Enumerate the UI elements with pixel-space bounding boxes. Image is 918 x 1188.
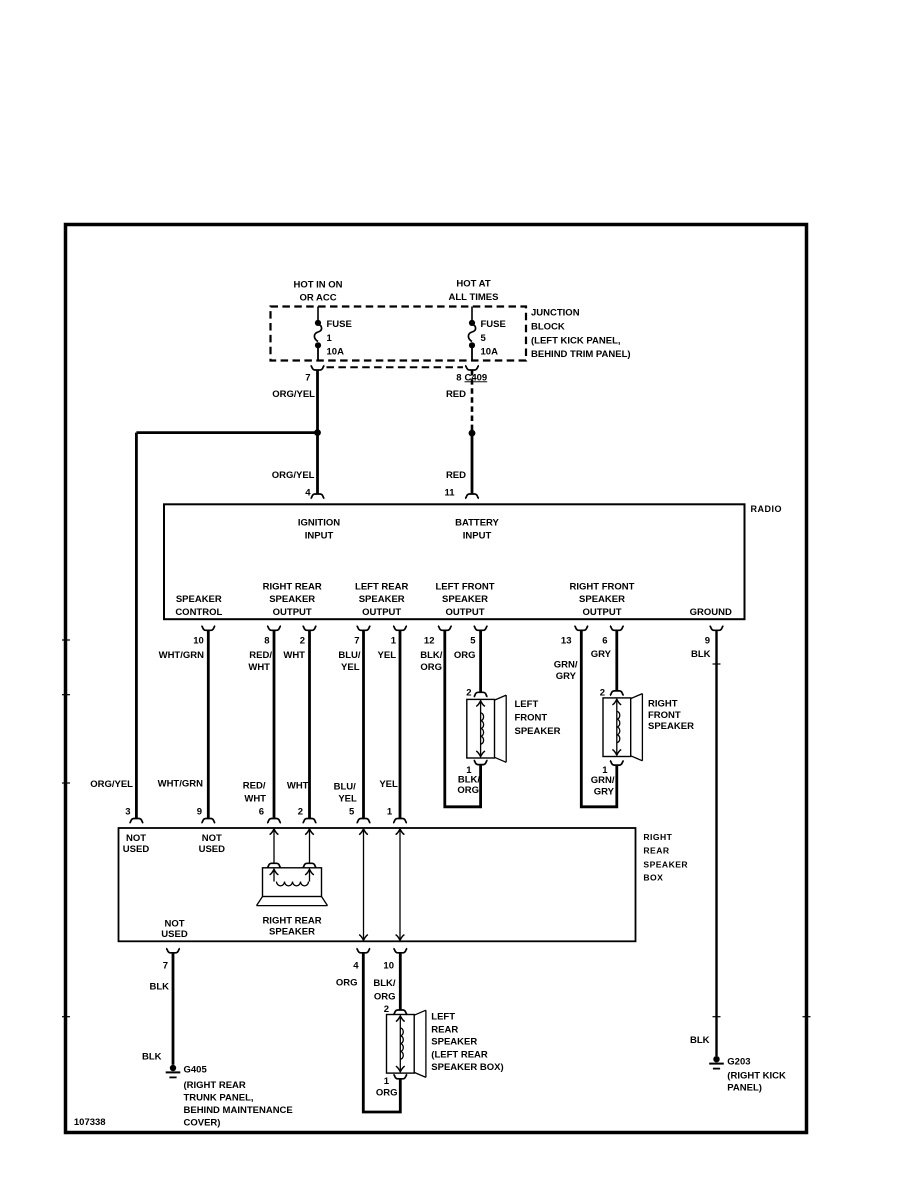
svg-text:YEL: YEL [378, 650, 397, 661]
svg-text:BLK: BLK [142, 1052, 162, 1063]
svg-text:IGNITION: IGNITION [298, 518, 340, 529]
svg-text:SPEAKER: SPEAKER [431, 1037, 477, 1048]
svg-text:USED: USED [123, 844, 150, 855]
svg-text:8: 8 [456, 372, 461, 383]
svg-text:2: 2 [466, 688, 471, 699]
svg-text:RIGHT FRONT: RIGHT FRONT [570, 582, 635, 593]
svg-text:GRY: GRY [594, 787, 615, 798]
svg-text:GRY: GRY [591, 649, 612, 660]
svg-text:CONTROL: CONTROL [175, 607, 222, 618]
wire ORG pin5 to LF speaker pin 2 [454, 630, 488, 698]
wire ORG/YEL lower label + pin 4 into radio [272, 470, 325, 499]
box label NOT USED (pin 7) [161, 918, 188, 940]
radio pin 1 connector [391, 626, 407, 647]
svg-text:(RIGHT KICK: (RIGHT KICK [727, 1071, 786, 1082]
svg-text:PANEL): PANEL) [727, 1083, 762, 1094]
svg-text:SPEAKER: SPEAKER [515, 726, 561, 737]
svg-text:BLK/: BLK/ [420, 650, 443, 661]
right front speaker [603, 694, 642, 761]
svg-text:BLOCK: BLOCK [531, 322, 565, 333]
svg-text:BLU/: BLU/ [334, 782, 357, 793]
svg-text:RED: RED [446, 470, 466, 481]
scan tick marks [62, 640, 811, 1017]
radio pin 7 connector [354, 626, 370, 647]
svg-text:FRONT: FRONT [648, 710, 681, 721]
in-box wire WHT to RR speaker pin B [303, 829, 317, 868]
connector C409 pin 7 [305, 366, 324, 384]
svg-text:BEHIND MAINTENANCE: BEHIND MAINTENANCE [184, 1105, 293, 1116]
junction block (dashed box) [271, 307, 527, 361]
svg-text:ORG: ORG [420, 662, 442, 673]
wire ORG/YEL from fuse 1 to junction dot [272, 370, 317, 494]
svg-text:GRN/: GRN/ [554, 660, 578, 671]
svg-text:WHT: WHT [283, 650, 305, 661]
svg-text:SPEAKER: SPEAKER [359, 594, 405, 605]
svg-text:10: 10 [383, 960, 394, 971]
wire GRY pin6 to RF speaker pin 2 [591, 630, 624, 698]
in-box wire RED/WHT to RR speaker pin A [267, 829, 281, 868]
svg-text:10A: 10A [481, 347, 499, 358]
svg-text:SPEAKER: SPEAKER [643, 859, 688, 869]
right rear speaker label [262, 916, 321, 938]
svg-text:5: 5 [470, 636, 476, 647]
right front speaker label [648, 698, 694, 732]
svg-text:5: 5 [349, 807, 355, 818]
svg-text:WHT: WHT [248, 662, 270, 673]
svg-text:RIGHT REAR: RIGHT REAR [263, 582, 322, 593]
wire WHT/GRN pin10 to box pin 9 [158, 630, 216, 823]
svg-text:LEFT FRONT: LEFT FRONT [435, 582, 494, 593]
wire YEL pin1 to box pin 1 [378, 630, 407, 823]
box pin 10 connector [383, 948, 407, 971]
svg-text:RADIO: RADIO [751, 504, 783, 514]
radio U1 box [164, 504, 745, 619]
svg-text:7: 7 [163, 961, 168, 972]
svg-text:RED: RED [446, 389, 466, 400]
svg-text:G203: G203 [727, 1057, 750, 1068]
junction node dot on RED [469, 430, 476, 437]
right rear speaker [257, 868, 328, 906]
radio pin 8 connector [264, 626, 281, 647]
svg-text:OUTPUT: OUTPUT [445, 607, 484, 618]
svg-text:OUTPUT: OUTPUT [273, 607, 312, 618]
svg-text:COVER): COVER) [184, 1118, 221, 1129]
svg-text:11: 11 [444, 488, 455, 499]
svg-text:HOT IN ON: HOT IN ON [293, 280, 342, 291]
radio pin 5 connector [470, 626, 487, 647]
svg-text:ORG: ORG [336, 978, 358, 989]
radio pin label RIGHT REAR SPEAKER OUTPUT [263, 582, 322, 619]
svg-text:2: 2 [300, 636, 305, 647]
radio pin label LEFT FRONT SPEAKER OUTPUT [435, 582, 494, 619]
svg-text:JUNCTION: JUNCTION [531, 308, 580, 319]
svg-text:5: 5 [481, 333, 487, 344]
svg-text:2: 2 [600, 688, 605, 699]
svg-text:SPEAKER: SPEAKER [176, 594, 222, 605]
svg-text:REAR: REAR [431, 1025, 458, 1036]
svg-text:FUSE: FUSE [327, 319, 352, 330]
svg-text:4: 4 [305, 488, 311, 499]
svg-text:12: 12 [424, 636, 435, 647]
svg-text:1: 1 [384, 1076, 390, 1087]
left front speaker [467, 695, 506, 762]
svg-text:ORG: ORG [374, 991, 396, 1002]
box pin 7 connector [163, 948, 180, 971]
svg-text:SPEAKER: SPEAKER [269, 927, 315, 938]
radio pin label SPEAKER CONTROL [175, 594, 222, 618]
svg-text:USED: USED [199, 844, 226, 855]
wire RED dashed from C409 to junction dot [446, 370, 472, 430]
wire BLK to G405 [142, 953, 173, 1065]
ground G203 [709, 1056, 786, 1094]
svg-text:WHT/GRN: WHT/GRN [158, 779, 204, 790]
left rear speaker [387, 1010, 426, 1077]
svg-text:BATTERY: BATTERY [455, 518, 499, 529]
svg-text:ORG: ORG [454, 650, 476, 661]
wire BLK pin9 to G203 [690, 630, 717, 1056]
svg-text:SPEAKER: SPEAKER [269, 594, 315, 605]
svg-text:WHT: WHT [244, 793, 266, 804]
svg-text:RIGHT: RIGHT [648, 698, 678, 709]
svg-text:2: 2 [298, 807, 303, 818]
svg-text:RIGHT REAR: RIGHT REAR [262, 916, 321, 927]
wire BLU/YEL pin7 to box pin 5 [334, 630, 371, 823]
svg-text:BLK/: BLK/ [373, 978, 396, 989]
svg-text:4: 4 [353, 960, 359, 971]
svg-text:SPEAKER BOX): SPEAKER BOX) [431, 1062, 503, 1073]
radio pin 6 connector [602, 626, 623, 647]
wire WHT pin2 to box pin 2 [283, 630, 316, 823]
svg-text:107338: 107338 [74, 1117, 106, 1128]
in-box wire YEL passthrough [396, 829, 405, 940]
radio pin 13 connector [561, 626, 588, 647]
svg-text:ORG: ORG [457, 785, 479, 796]
svg-text:HOT AT: HOT AT [456, 279, 490, 290]
svg-text:FRONT: FRONT [515, 713, 548, 724]
junction node dot on ORG/YEL [314, 429, 321, 436]
svg-text:LEFT REAR: LEFT REAR [355, 582, 408, 593]
svg-text:BLK: BLK [691, 649, 711, 660]
ground G405 [166, 1065, 293, 1129]
svg-text:7: 7 [305, 372, 310, 383]
radio pin label LEFT REAR SPEAKER OUTPUT [355, 582, 408, 619]
svg-text:13: 13 [561, 636, 572, 647]
wire BLK/ORG to LR speaker pin 2 [373, 953, 407, 1015]
wire BLK/ORG pin12 to LF speaker pin 1 [420, 630, 487, 807]
box label NOT USED (pin 3) [123, 833, 150, 855]
svg-text:WHT: WHT [287, 781, 309, 792]
box label NOT USED (pin 9) [199, 833, 226, 855]
diagram border frame [66, 225, 807, 1133]
svg-text:REAR: REAR [643, 846, 669, 856]
radio pin 9 connector [705, 626, 724, 647]
svg-text:ORG/YEL: ORG/YEL [272, 389, 315, 400]
junction block label [531, 308, 631, 361]
svg-text:RED/: RED/ [249, 650, 272, 661]
svg-text:10A: 10A [327, 347, 345, 358]
svg-text:9: 9 [705, 636, 710, 647]
svg-text:BLK: BLK [690, 1035, 710, 1046]
svg-text:C409: C409 [465, 372, 488, 383]
svg-text:2: 2 [384, 1004, 389, 1015]
svg-text:SPEAKER: SPEAKER [442, 594, 488, 605]
box pin 4 connector [353, 948, 370, 971]
svg-text:INPUT: INPUT [305, 531, 334, 542]
svg-text:RIGHT: RIGHT [643, 832, 672, 842]
node HOT IN ON OR ACC [293, 280, 342, 304]
svg-text:6: 6 [602, 636, 607, 647]
svg-text:(LEFT REAR: (LEFT REAR [431, 1050, 488, 1061]
radio pin 2 connector [300, 626, 317, 647]
radio pin 12 connector [424, 626, 452, 647]
svg-text:NOT: NOT [164, 918, 184, 929]
svg-text:ALL TIMES: ALL TIMES [449, 292, 499, 303]
svg-text:OUTPUT: OUTPUT [362, 607, 401, 618]
svg-text:OUTPUT: OUTPUT [582, 607, 621, 618]
svg-text:YEL: YEL [379, 779, 398, 790]
svg-text:FUSE: FUSE [481, 319, 506, 330]
wire ORG/YEL branch horizontal [136, 431, 317, 434]
radio pin label BATTERY INPUT [455, 518, 499, 542]
svg-text:GRN/: GRN/ [591, 775, 615, 786]
svg-text:WHT/GRN: WHT/GRN [159, 650, 205, 661]
svg-text:BLK: BLK [149, 982, 169, 993]
svg-text:GRY: GRY [556, 671, 577, 682]
left front speaker label [515, 699, 561, 737]
svg-text:ORG/YEL: ORG/YEL [272, 470, 315, 481]
svg-text:7: 7 [354, 636, 359, 647]
svg-text:BLU/: BLU/ [338, 650, 361, 661]
svg-text:(RIGHT REAR: (RIGHT REAR [184, 1080, 246, 1091]
svg-text:OR ACC: OR ACC [299, 293, 336, 304]
svg-text:NOT: NOT [202, 833, 222, 844]
node HOT AT ALL TIMES [449, 279, 499, 304]
wire ORG/YEL left drop to speaker box pin 3 [90, 433, 143, 823]
svg-text:SPEAKER: SPEAKER [648, 721, 694, 732]
radio pin 10 connector [193, 626, 215, 647]
svg-text:ORG: ORG [376, 1088, 398, 1099]
svg-text:LEFT: LEFT [431, 1012, 455, 1023]
wire RED solid to radio pin 11 [444, 433, 478, 498]
svg-text:GROUND: GROUND [690, 607, 732, 618]
connector C409 pin 8 [327, 366, 488, 384]
fuse 5 10A [468, 307, 505, 361]
svg-text:USED: USED [161, 929, 188, 940]
svg-text:8: 8 [264, 636, 269, 647]
left rear speaker label [431, 1012, 503, 1074]
radio pin label RIGHT FRONT SPEAKER OUTPUT [570, 582, 635, 619]
svg-text:SPEAKER: SPEAKER [579, 594, 625, 605]
svg-text:10: 10 [193, 636, 204, 647]
svg-text:(LEFT KICK PANEL,: (LEFT KICK PANEL, [531, 336, 621, 347]
svg-text:BEHIND TRIM PANEL): BEHIND TRIM PANEL) [531, 349, 631, 360]
svg-text:YEL: YEL [338, 793, 357, 804]
wire RED/WHT pin8 to box pin 6 [243, 630, 281, 823]
wire ORG to LR speaker pin 1 [336, 953, 407, 1112]
wire GRN/GRY pin13 to RF speaker pin 1 [554, 630, 624, 807]
svg-text:INPUT: INPUT [463, 531, 492, 542]
svg-text:1: 1 [327, 333, 333, 344]
svg-text:LEFT: LEFT [515, 699, 539, 710]
svg-text:9: 9 [197, 807, 202, 818]
svg-text:BOX: BOX [643, 873, 663, 883]
in-box wire BLU/YEL passthrough [359, 829, 368, 940]
svg-text:RED/: RED/ [243, 780, 266, 791]
svg-text:YEL: YEL [341, 662, 360, 673]
right rear speaker box [119, 828, 636, 941]
svg-text:3: 3 [125, 807, 130, 818]
svg-text:6: 6 [259, 807, 264, 818]
radio pin label IGNITION INPUT [298, 518, 340, 542]
svg-text:NOT: NOT [126, 833, 146, 844]
svg-text:ORG/YEL: ORG/YEL [90, 779, 133, 790]
right rear speaker box label [643, 832, 688, 883]
svg-text:1: 1 [391, 636, 397, 647]
svg-text:G405: G405 [184, 1065, 208, 1076]
svg-text:TRUNK PANEL,: TRUNK PANEL, [184, 1093, 254, 1104]
svg-text:1: 1 [387, 807, 393, 818]
fuse 1 10A [314, 307, 351, 361]
